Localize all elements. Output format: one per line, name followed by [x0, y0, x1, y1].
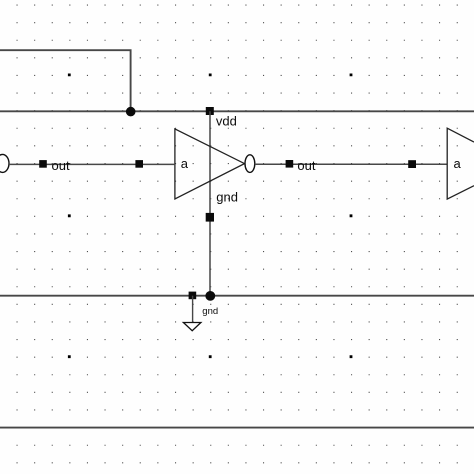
svg-text:a: a [181, 156, 189, 171]
label: out (left net name) [52, 158, 70, 173]
label: vdd pin name [216, 113, 237, 128]
pin: second square pin on left out wire [135, 160, 143, 168]
ground: ground symbol (hollow downward triangle) [183, 323, 201, 331]
wire: vdd power rail (full-width horizontal) [0, 110, 474, 112]
wire: vdd-gnd rail through inverter U1 (vertical) [209, 111, 211, 295]
bubble: output bubble of off-canvas inverter at left edge [0, 154, 9, 172]
pin: square pin near U2 input [408, 160, 416, 168]
wire: net out, right segment from U1 bubble to U2 input [255, 163, 447, 165]
bubble: output inversion bubble of U1 [245, 155, 255, 173]
label: a (input pin of inverter U1) [181, 156, 189, 171]
junction: U1 gnd rail joins gnd net [205, 291, 215, 301]
wire: stem from gnd net down to ground symbol [192, 296, 194, 323]
pin: square pin on right out wire [286, 160, 294, 168]
label: gnd (ground net name, small) [202, 306, 218, 317]
inverter U1: triangle body [175, 129, 245, 199]
wire: top feedback segment of net out, runs right then down to vdd rail [0, 50, 131, 111]
pin: square pin tapping gnd net for ground symbol [189, 292, 197, 300]
svg-text:out: out [297, 158, 315, 173]
label: a (input pin of inverter U2) [454, 156, 462, 171]
wire: net out, left segment from left bubble to U1 input [9, 163, 175, 165]
svg-text:gnd: gnd [202, 306, 218, 317]
label: gnd pin name of U1 [216, 189, 238, 204]
wire: bottom net (full-width horizontal) [0, 427, 474, 429]
pin: vdd pin square of inverter U1 on vdd rail [206, 107, 214, 115]
pin: square pin on left out wire [39, 160, 47, 168]
wire: gnd net (full-width horizontal) [0, 295, 474, 297]
svg-text:a: a [454, 156, 462, 171]
label: out (right net name) [297, 158, 315, 173]
pin: gnd pin square of inverter U1 [206, 213, 214, 222]
inverter U2: triangle body, partially visible at right edge [447, 128, 474, 199]
junction: feedback wire joins vdd rail [126, 107, 136, 117]
svg-text:out: out [52, 158, 70, 173]
svg-text:gnd: gnd [216, 189, 238, 204]
svg-text:vdd: vdd [216, 113, 237, 128]
